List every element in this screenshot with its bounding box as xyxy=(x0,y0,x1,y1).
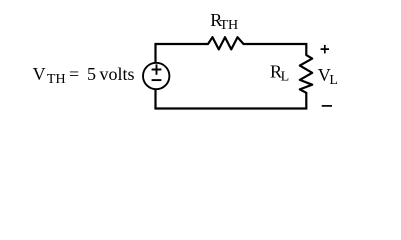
svg-text:5: 5 xyxy=(87,64,96,84)
svg-text:TH: TH xyxy=(47,72,66,87)
svg-text:=: = xyxy=(69,64,79,84)
svg-text:TH: TH xyxy=(220,18,239,33)
svg-text:L: L xyxy=(329,73,338,88)
svg-text:L: L xyxy=(281,69,290,84)
label plus sign at V_L xyxy=(321,45,329,54)
label minus sign at V_L xyxy=(322,105,332,107)
wire: top side right segment and right vertical down to resistor xyxy=(244,44,307,55)
voltage source polarity plus xyxy=(152,64,162,74)
resistor R_TH zigzag xyxy=(208,37,244,49)
voltage source polarity minus bar xyxy=(152,79,162,81)
wire: left vertical top and top side to resistor xyxy=(156,44,209,63)
resistor R_L zigzag xyxy=(300,55,312,93)
voltage source V_TH circle xyxy=(143,63,169,89)
wire: right vertical bottom, bottom side, left vertical up to source xyxy=(156,89,307,108)
svg-text:volts: volts xyxy=(100,64,135,84)
svg-text:V: V xyxy=(33,64,46,84)
